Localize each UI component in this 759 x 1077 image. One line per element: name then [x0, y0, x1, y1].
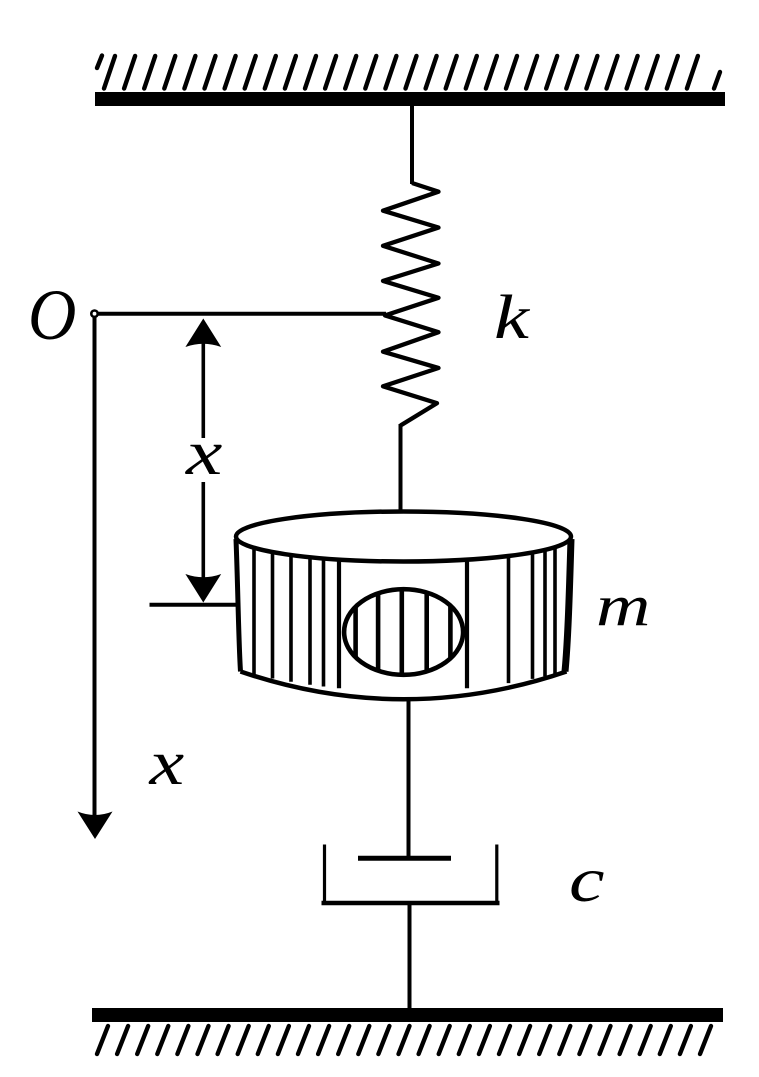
- dimension arrow down head: [185, 574, 221, 603]
- dimension arrow lower line: [202, 482, 206, 578]
- svg-text:O: O: [28, 276, 76, 356]
- svg-text:x: x: [148, 728, 184, 799]
- mass m face stave lines: [254, 547, 555, 688]
- mass m right wall: [565, 539, 571, 672]
- wire spring to mass: [399, 424, 403, 513]
- wire mass to damper rod: [407, 699, 411, 858]
- svg-text:c: c: [569, 844, 605, 916]
- datum tick at mass top level: [150, 603, 237, 607]
- dimension arrow upper line: [202, 343, 206, 438]
- svg-text:m: m: [596, 573, 650, 638]
- svg-text:k: k: [494, 284, 531, 352]
- wire damper to floor: [408, 905, 412, 1010]
- damper piston plate: [358, 856, 451, 861]
- node O circle: [91, 311, 97, 317]
- wire ceiling to spring: [410, 104, 414, 184]
- x axis arrowhead: [78, 812, 113, 840]
- top fixed wall bar: [95, 92, 725, 106]
- mass m bottom arc: [241, 672, 567, 700]
- mass m left wall: [236, 539, 241, 672]
- spring k: [383, 183, 439, 426]
- x axis line: [93, 318, 97, 816]
- top wall hatching: [97, 56, 720, 89]
- svg-text:x: x: [185, 417, 223, 488]
- wire O horizontal to spring: [99, 312, 387, 316]
- mass m hole ellipse: [344, 589, 463, 675]
- damper cup bottom: [322, 901, 500, 906]
- damper cup left wall: [323, 845, 326, 904]
- dimension arrow up head: [185, 319, 221, 348]
- damper cup right wall: [495, 845, 498, 904]
- mass m drum top ellipse: [236, 512, 571, 562]
- bottom fixed wall bar: [92, 1008, 723, 1022]
- bottom wall hatching: [97, 1026, 711, 1054]
